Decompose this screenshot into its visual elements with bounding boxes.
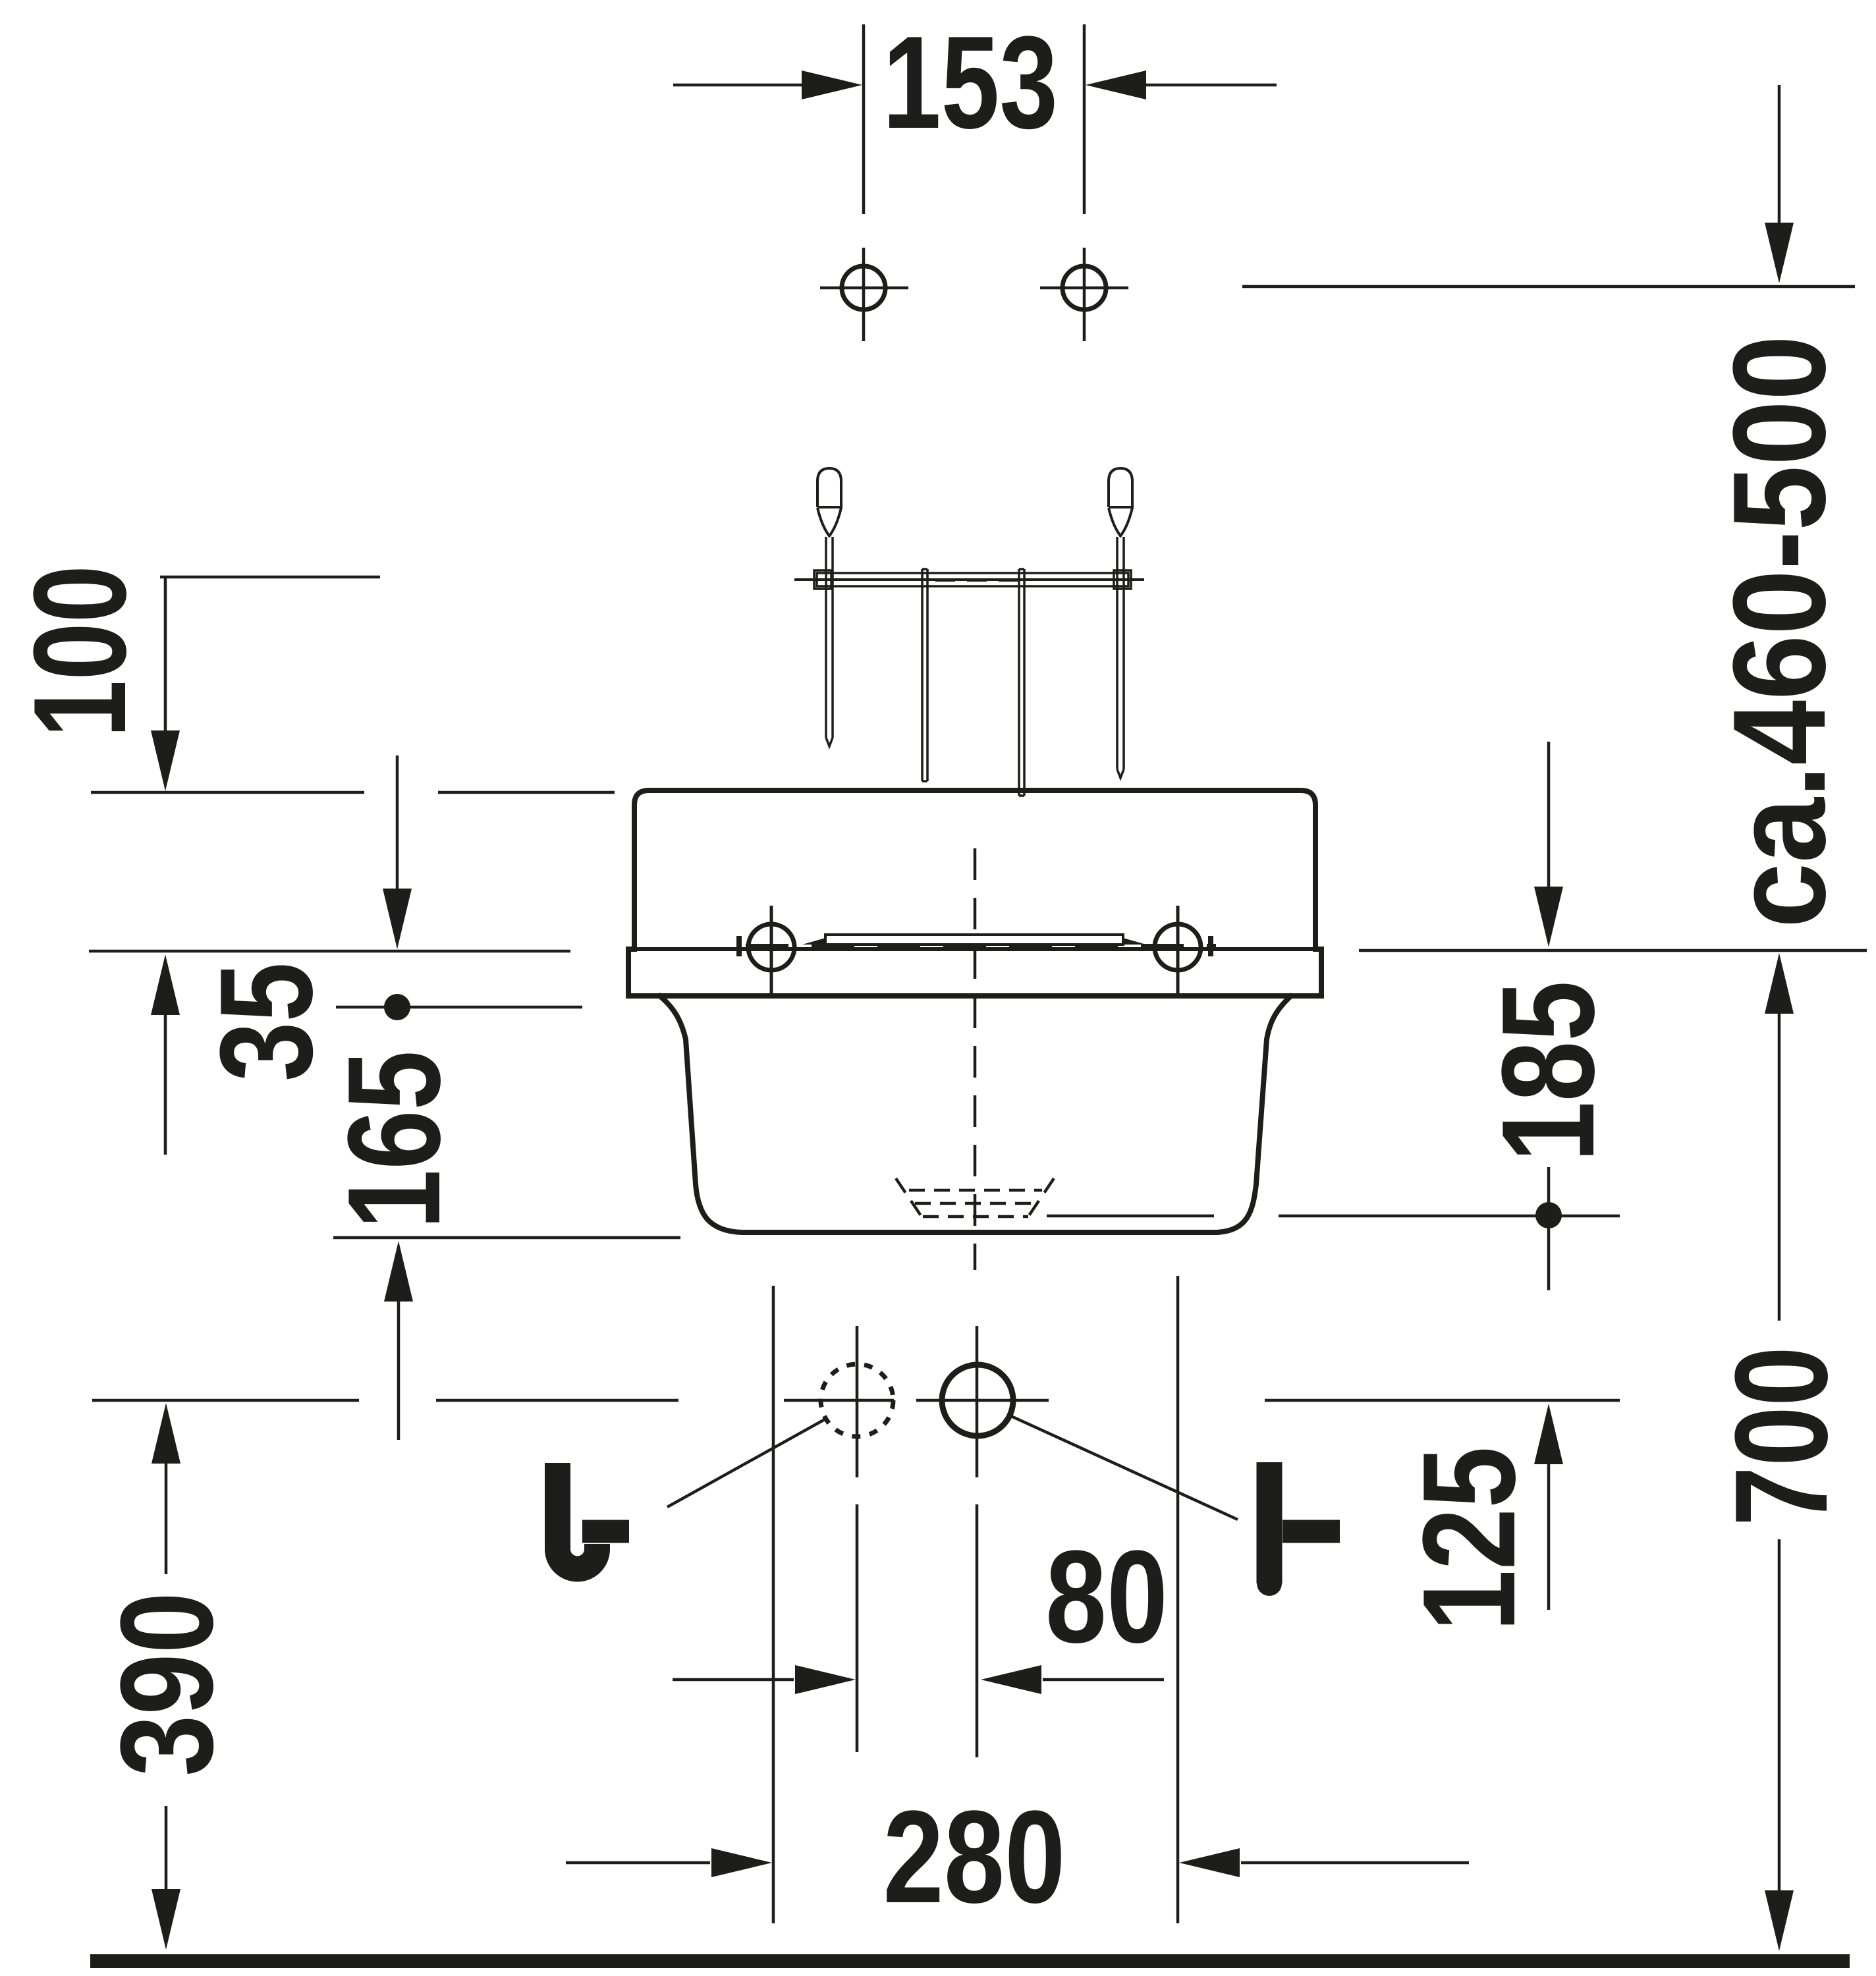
svg-text:700: 700 — [1708, 1346, 1855, 1526]
dim 35: dot level line — [336, 1006, 582, 1009]
dim 390: up arrowhead — [152, 1403, 180, 1464]
dim 80: right arrowhead — [981, 1665, 1041, 1694]
dim 185: upper line — [1547, 742, 1551, 888]
towel rail wedge left — [802, 938, 825, 945]
anchor left: rod — [826, 537, 833, 746]
mounting bar — [817, 573, 1128, 586]
faucet hole right: circle — [1155, 924, 1201, 970]
svg-text:ca.460-500: ca.460-500 — [1706, 335, 1853, 928]
anchor left: neck — [817, 508, 841, 537]
dim 80: right arrow line — [1043, 1678, 1164, 1682]
wall hole right: circle — [1062, 266, 1106, 310]
towel rail fixing tick left — [736, 936, 742, 956]
dim ca.460-500: up arrowhead — [1765, 953, 1794, 1014]
dim 153: extension line left hole — [862, 24, 866, 214]
dim 165: up arrowhead at basin bottom — [384, 1241, 413, 1302]
dim 165: lower line — [397, 1300, 400, 1440]
floor-outlet icon bottom cap — [1257, 1571, 1282, 1596]
dim ca.460-500: down arrowhead — [1765, 223, 1794, 283]
svg-text:35: 35 — [193, 962, 340, 1082]
faucet hole left: axis — [770, 906, 773, 996]
wall hole left: circle — [842, 266, 885, 310]
drain basket (dashed) rows — [909, 1190, 1042, 1217]
anchor right: rod — [1117, 537, 1124, 778]
wall-outlet icon — [558, 1463, 597, 1569]
dim 35: dot — [384, 994, 410, 1020]
svg-text:125: 125 — [1396, 1446, 1543, 1632]
dim 280: right arrowhead — [1179, 1848, 1240, 1877]
basin bottom level line inside basin — [1047, 1215, 1214, 1218]
basin bottom extension line — [333, 1236, 680, 1240]
drain centerline horizontal segments — [92, 1399, 1620, 1402]
dim 280: left extension line — [772, 1286, 775, 1923]
dim 185: down arrowhead — [1534, 887, 1563, 947]
towel rail bar — [825, 935, 1123, 945]
dim 280: left arrow line — [566, 1861, 710, 1865]
dim 153: right arrow line — [1144, 84, 1277, 87]
basin outline — [658, 995, 1292, 1232]
dim 700: lower line — [1778, 1539, 1781, 1892]
dim 185: lower line — [1547, 1167, 1551, 1290]
drain floor-outlet vertical axis — [976, 1326, 979, 1757]
dim 390: lower line — [165, 1806, 168, 1892]
dim 153: right arrowhead — [1086, 70, 1146, 99]
mounting bar end block left — [814, 570, 831, 589]
anchor right: head — [1109, 468, 1132, 507]
sink centerline (dashed) — [974, 848, 977, 1270]
mounting bar thin line — [794, 578, 1144, 581]
dim 165: up arrowhead at rim — [151, 954, 180, 1015]
sink top extension line — [91, 791, 615, 794]
drain wall-outlet vertical axis — [856, 1326, 859, 1752]
dim 153: extension line right hole — [1083, 24, 1086, 214]
faucet hole right: axis — [1176, 906, 1180, 996]
dim 280: right arrow line — [1241, 1861, 1469, 1865]
mounting bar end block right — [1114, 570, 1131, 589]
sink body outline — [628, 790, 1321, 996]
svg-text:390: 390 — [94, 1592, 240, 1776]
dim 165: upper line — [164, 1014, 167, 1155]
floor line — [90, 1954, 1850, 1968]
dim 100: line — [164, 577, 167, 732]
wall-outlet icon arm — [582, 1520, 629, 1543]
drain basket (dashed) left slant — [896, 1178, 922, 1217]
dim 35: down arrowhead — [383, 889, 412, 949]
dim 700: down arrowhead at floor — [1765, 1890, 1794, 1951]
dim 100: top reference line — [160, 576, 380, 579]
mounting bar dashed axis — [935, 579, 1028, 582]
svg-text:153: 153 — [883, 9, 1058, 156]
floor-outlet icon — [1257, 1462, 1283, 1583]
middle rod right — [1019, 569, 1024, 796]
svg-text:100: 100 — [7, 565, 153, 738]
svg-text:280: 280 — [883, 1784, 1066, 1931]
leader to wall-outlet icon — [667, 1419, 825, 1507]
sink rim front edge line — [628, 947, 1321, 951]
dim 100: down arrowhead — [151, 730, 180, 791]
drain wall-outlet circle (dashed) — [821, 1364, 893, 1437]
drain basket (dashed) right slant — [1028, 1178, 1054, 1217]
dim ca.460-500: upper line — [1778, 85, 1781, 224]
basin bottom level line right — [1279, 1215, 1620, 1218]
wall holes axis line to right — [1242, 285, 1855, 288]
faucet hole left: circle — [748, 924, 794, 970]
dim ca.460-500 / 700: middle line — [1778, 1012, 1781, 1321]
dim 153: left arrowhead — [802, 70, 862, 99]
dim 185: dot — [1535, 1202, 1562, 1228]
wall hole left: crosshair — [820, 248, 908, 341]
dim 125: line — [1547, 1463, 1551, 1610]
dim 390: upper line — [165, 1462, 168, 1574]
wall hole right: crosshair — [1040, 248, 1128, 341]
svg-text:165: 165 — [321, 1051, 468, 1229]
svg-text:185: 185 — [1475, 981, 1622, 1162]
dim 35: line — [396, 755, 399, 890]
towel rail wedge right — [1123, 938, 1146, 945]
dim 125: up arrowhead — [1534, 1404, 1563, 1464]
anchor left: head — [817, 468, 841, 507]
floor-outlet icon arm — [1283, 1520, 1340, 1543]
dim 280: right extension line — [1176, 1276, 1180, 1923]
drain floor-outlet circle — [942, 1365, 1013, 1436]
middle rod left — [922, 569, 927, 781]
anchor right: neck — [1109, 508, 1132, 537]
svg-text:80: 80 — [1045, 1523, 1168, 1670]
towel rail heavy dashed axis — [746, 944, 1216, 950]
dim 390: down arrowhead — [152, 1889, 180, 1950]
dim 80: left arrowhead — [795, 1665, 856, 1694]
towel rail fixing tick right — [1208, 936, 1213, 956]
dim 280: left arrowhead — [711, 1848, 772, 1877]
dim 80: left arrow line — [673, 1678, 794, 1682]
rim line left extension — [89, 950, 570, 953]
leader to floor-outlet icon — [1011, 1416, 1238, 1520]
dim 153: left arrow line — [673, 84, 803, 87]
rim line right extension — [1359, 949, 1867, 952]
